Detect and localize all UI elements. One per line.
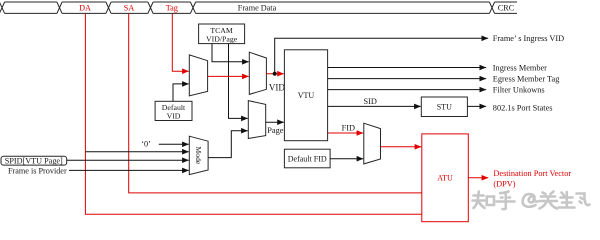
svg-text:Frame Data: Frame Data [238, 3, 277, 12]
wire TCAM VID output to mux U2 [212, 44, 249, 62]
frame field CRC [489, 2, 517, 13]
svg-text:FID: FID [342, 124, 355, 133]
svg-text:Egress Member Tag: Egress Member Tag [493, 75, 560, 84]
svg-text:SID: SID [364, 97, 377, 106]
Default FID box [284, 149, 330, 168]
wire Page mux to VTU [266, 121, 284, 123]
frame field SA [106, 2, 148, 13]
TCAM VID/Page box [199, 24, 245, 44]
svg-text:DA: DA [79, 3, 91, 12]
frame field DA [57, 2, 106, 13]
wire '0' to Mode mux [159, 143, 189, 145]
svg-text:Frame’ s Ingress VID: Frame’ s Ingress VID [493, 34, 564, 43]
svg-text:802.1s Port States: 802.1s Port States [493, 104, 553, 113]
wire SPID to Mode mux [67, 159, 189, 161]
VTU box [284, 50, 327, 141]
node VID junction [273, 72, 277, 76]
svg-text:Filter Unkowns: Filter Unkowns [493, 86, 545, 95]
wire VTU FID to FID mux (red) [328, 132, 364, 134]
wire VID tap to Frame's Ingress VID [275, 38, 488, 73]
svg-text:Ingress Member: Ingress Member [493, 63, 547, 72]
svg-text:TCAM: TCAM [210, 26, 233, 35]
wire Frame is Provider to Mode mux [69, 169, 189, 171]
frame bar leading field (torn left edge) [0, 2, 57, 13]
wire mux U1 to mux U2 (red) [208, 75, 249, 77]
svg-text:Destination Port Vector: Destination Port Vector [493, 169, 571, 178]
svg-text:Frame is Provider: Frame is Provider [8, 166, 67, 175]
wire TCAM Page output to Page mux [229, 44, 248, 119]
mux U1 (VID source select) [189, 55, 207, 96]
mux U2 (TCAM VID select) [249, 52, 266, 94]
svg-text:CRC: CRC [498, 3, 515, 12]
label Destination Port Vector (DPV) [493, 169, 571, 189]
svg-text:Default: Default [162, 103, 186, 112]
wire STU to 802.1s Port States [467, 105, 486, 107]
svg-text:‘0’: ‘0’ [141, 140, 151, 149]
svg-text:Page: Page [267, 126, 283, 135]
Page mux [248, 101, 265, 139]
svg-text:SPID[VTU Page]: SPID[VTU Page] [5, 157, 63, 166]
svg-text:STU: STU [437, 103, 452, 112]
SPID[VTU Page] box [1, 156, 67, 165]
frame field Frame Data [190, 2, 489, 13]
svg-text:Mode: Mode [194, 147, 203, 165]
svg-text:(DPV): (DPV) [493, 179, 515, 188]
svg-text:ATU: ATU [437, 174, 453, 183]
wire VTU to Ingress Member [328, 67, 487, 69]
wire DA branch to Mode mux [85, 151, 188, 153]
wire ATU to DPV (red) [468, 177, 488, 179]
Default VID box [155, 101, 192, 120]
wire DA drop to ATU (red) [85, 14, 421, 215]
svg-text:VID/Page: VID/Page [206, 35, 238, 44]
wire mux U2 to VTU (red, VID) [266, 73, 283, 75]
svg-text:SA: SA [124, 3, 135, 12]
watermark 知乎 @养生飞 [473, 192, 590, 210]
wire VTU SID to STU [328, 105, 421, 107]
Mode mux [189, 136, 208, 174]
wire Tag drop to VID mux (red) [172, 14, 188, 72]
wire VTU to Egress Member Tag [328, 78, 487, 80]
svg-text:VTU: VTU [298, 91, 315, 100]
wire Default VID to mux U1 [173, 84, 189, 101]
svg-text:Default FID: Default FID [288, 154, 327, 163]
wire FID mux to ATU (red) [381, 146, 422, 148]
svg-text:VID: VID [167, 112, 181, 121]
frame field Tag [148, 2, 191, 13]
ATU box (red) [422, 134, 469, 222]
FID mux [364, 123, 381, 164]
svg-text:Tag: Tag [166, 3, 178, 12]
wire Default FID to FID mux [330, 158, 363, 160]
wire VTU to Filter Unkowns [328, 89, 487, 91]
svg-text:VID: VID [269, 83, 285, 93]
wire SA drop to ATU (red) [129, 14, 422, 193]
wire Mode mux to Page mux [208, 131, 248, 158]
STU box [421, 97, 467, 117]
